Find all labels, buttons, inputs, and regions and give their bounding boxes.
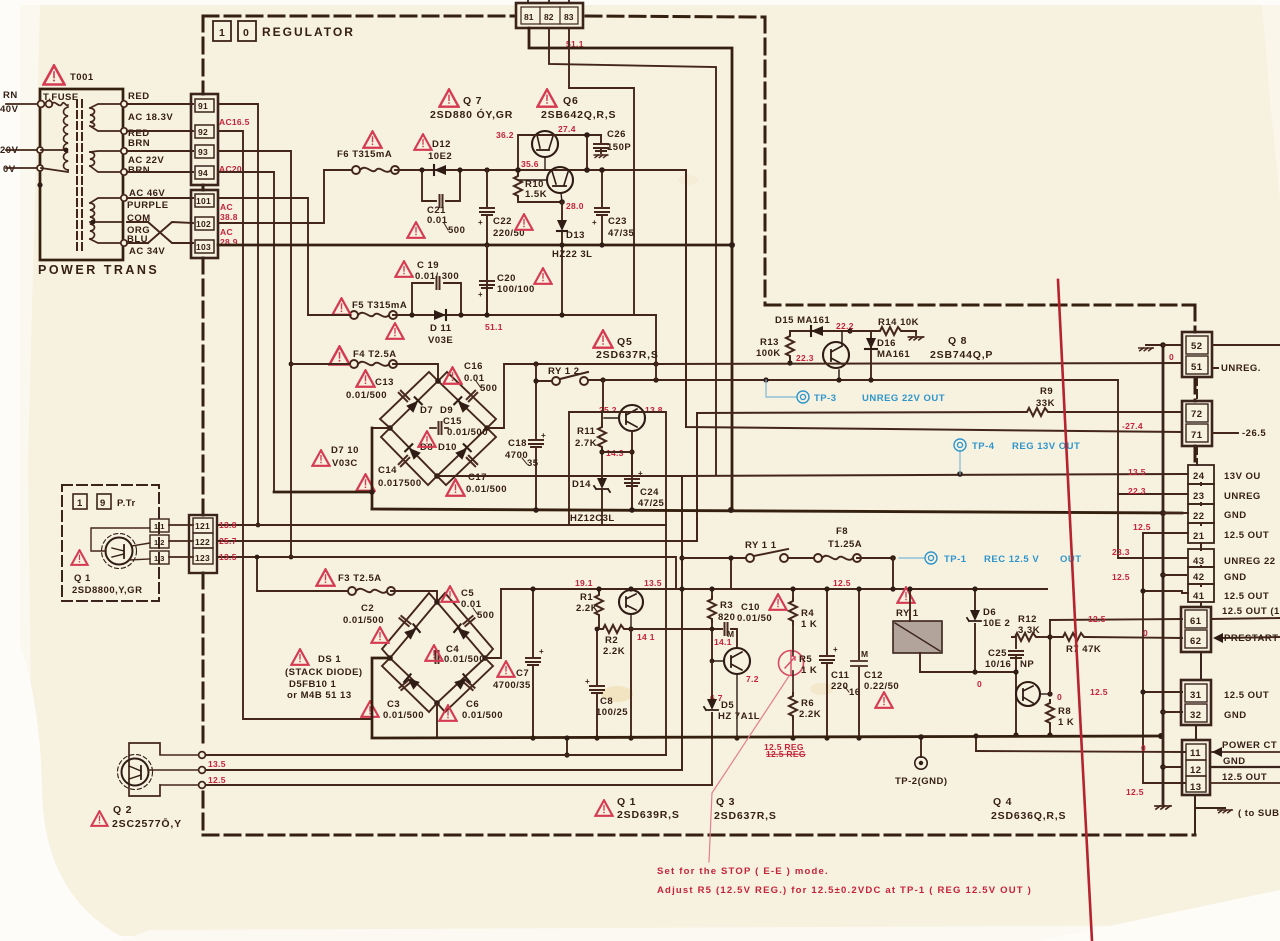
svg-text:C8: C8: [600, 696, 613, 707]
diode D12: [434, 165, 446, 175]
svg-text:12.5: 12.5: [1090, 687, 1108, 697]
svg-text:13: 13: [1190, 782, 1202, 793]
svg-text:0.01/ 300: 0.01/ 300: [415, 271, 459, 282]
diode D10: [455, 444, 471, 460]
wire 12.5 OUT line y=533 to pin 21: [1143, 532, 1182, 534]
svg-text:43: 43: [1193, 556, 1205, 567]
svg-text:52: 52: [1191, 341, 1203, 352]
relay contact RY12: [536, 380, 1118, 494]
connector 121-123: [189, 515, 217, 573]
svg-text:2SD880 ÓY,GR: 2SD880 ÓY,GR: [430, 108, 513, 121]
svg-text:12.5: 12.5: [1133, 522, 1151, 532]
svg-text:150P: 150P: [607, 142, 631, 153]
svg-text:RY 1 2: RY 1 2: [548, 366, 580, 377]
wire bridge1 left to bold L: [372, 427, 390, 429]
svg-text:R1: R1: [580, 592, 593, 603]
svg-text:PURPLE: PURPLE: [127, 200, 169, 211]
fuse F3: [348, 587, 395, 595]
svg-text:0.01/500: 0.01/500: [346, 390, 387, 401]
svg-text:123: 123: [195, 553, 210, 563]
connector 91-94: [191, 94, 218, 185]
svg-text:C7: C7: [516, 668, 529, 679]
svg-text:12.5 OUT (1: 12.5 OUT (1: [1222, 606, 1280, 617]
svg-text:UNREG 22V OUT: UNREG 22V OUT: [862, 393, 945, 404]
svg-text:27.4: 27.4: [558, 124, 576, 134]
wire 123 line y=557: [218, 557, 676, 589]
svg-text:2.2K: 2.2K: [576, 603, 598, 614]
wire UNREG22 y=558 to pin 43: [1118, 494, 1182, 558]
svg-text:11: 11: [1190, 748, 1201, 759]
svg-text:0: 0: [1141, 743, 1146, 753]
svg-text:BRN: BRN: [128, 138, 150, 149]
connector 11/12/13: [1182, 740, 1210, 795]
test point TP-1: [899, 557, 924, 559]
svg-text:+: +: [478, 290, 483, 299]
wire bridge2 right to 12.5 rail: [485, 589, 501, 658]
capacitor C15 center: [439, 422, 442, 434]
bridge rectifier 1 (D7 D8 D9 D10): [380, 372, 496, 485]
wire REG13V long line y=475 to pin 24: [437, 474, 1182, 770]
wire 121 line y=525: [218, 525, 666, 755]
svg-text:12.5 OUT: 12.5 OUT: [1224, 690, 1269, 701]
svg-text:R14 10K: R14 10K: [878, 317, 919, 328]
svg-text:0.01/500: 0.01/500: [447, 427, 488, 438]
transistor Q3: [712, 648, 750, 738]
svg-text:D14: D14: [572, 479, 591, 490]
svg-text:83: 83: [564, 12, 574, 22]
diode D5 zener: [711, 661, 713, 785]
wire D12 rail to pin 71 y=433: [686, 170, 1182, 432]
diode D8: [405, 444, 421, 460]
svg-text:0.017500: 0.017500: [378, 478, 422, 489]
svg-text:0: 0: [243, 27, 250, 39]
diode D14 zener: [594, 478, 610, 492]
diode D15: [790, 330, 850, 332]
svg-text:C18: C18: [508, 438, 527, 449]
svg-text:GND: GND: [1223, 756, 1246, 767]
diode in bridge2 lower-right: [454, 674, 470, 689]
svg-text:2SD636Q,R,S: 2SD636Q,R,S: [991, 810, 1066, 822]
ground at GND bus bottom: [1155, 806, 1171, 809]
svg-text:RN: RN: [3, 90, 18, 101]
D7-D10 part label: [312, 450, 329, 466]
svg-text:82: 82: [544, 12, 554, 22]
transistor Q5: [604, 405, 645, 431]
resistor R2: [599, 629, 712, 738]
capacitor C22: [486, 170, 488, 315]
diode in bridge2 lower-left: [404, 674, 420, 689]
svg-text:1 1: 1 1: [154, 522, 164, 531]
svg-text:12.5 REG: 12.5 REG: [766, 749, 806, 759]
wire B3 feed: [569, 28, 634, 315]
svg-text:REC 12.5 V: REC 12.5 V: [984, 554, 1039, 565]
svg-text:AC: AC: [220, 202, 233, 212]
svg-text:HZ22 3L: HZ22 3L: [552, 249, 592, 260]
svg-text:C3: C3: [387, 699, 400, 710]
wire 92 drop to F3: [218, 131, 372, 719]
svg-text:24: 24: [1193, 471, 1205, 482]
wire 61 line: [1050, 619, 1182, 620]
transistor Q8: [823, 331, 849, 380]
svg-text:13.5: 13.5: [208, 759, 226, 769]
svg-text:0.01/500: 0.01/500: [462, 710, 503, 721]
svg-text:RY 1 1: RY 1 1: [745, 540, 777, 551]
capacitor C18: [535, 364, 537, 509]
resistor R12: [1015, 637, 1017, 648]
svg-text:93: 93: [198, 147, 208, 157]
svg-text:V03C: V03C: [332, 458, 358, 469]
wire 103 main AC bus: [218, 244, 732, 247]
svg-text:121: 121: [195, 521, 210, 531]
wire Q5 emitter to bus: [631, 431, 633, 509]
svg-text:Q5: Q5: [617, 336, 633, 348]
capacitor C12: [858, 589, 860, 738]
svg-text:19.1: 19.1: [575, 578, 593, 588]
svg-text:R8: R8: [1058, 706, 1071, 717]
svg-text:220: 220: [831, 681, 848, 692]
svg-text:14.1: 14.1: [714, 637, 732, 647]
svg-text:2.2K: 2.2K: [603, 646, 625, 657]
capacitor C23: [601, 170, 603, 245]
svg-text:2.2K: 2.2K: [799, 709, 821, 720]
svg-text:HZ12C3L: HZ12C3L: [570, 513, 615, 524]
junction dots F6 row: [419, 167, 424, 172]
svg-text:R11: R11: [577, 426, 596, 437]
svg-text:13.8: 13.8: [219, 520, 237, 530]
svg-text:101: 101: [196, 196, 211, 206]
capacitor C6: [439, 705, 456, 721]
svg-text:22.3: 22.3: [1128, 486, 1146, 496]
transistor Q7: [532, 131, 558, 170]
svg-text:35: 35: [527, 458, 539, 469]
wire UNREG22 line to pin 51 y=372: [656, 363, 1182, 364]
svg-text:2SD8800,Y,GR: 2SD8800,Y,GR: [72, 585, 142, 596]
svg-text:D7 10: D7 10: [331, 445, 359, 456]
svg-text:40V: 40V: [0, 104, 19, 115]
svg-text:D9: D9: [440, 405, 453, 416]
svg-text:0.01/500: 0.01/500: [444, 654, 485, 665]
crossover X of ORG / BLU wires: [148, 222, 193, 243]
wire Q6 node down x=656: [655, 315, 657, 380]
svg-text:GND: GND: [1224, 510, 1247, 521]
P.Tr block border: [62, 485, 159, 601]
resistor R4: [792, 589, 794, 651]
svg-text:D10: D10: [438, 442, 457, 453]
wire below connector 13 to ground: [1195, 795, 1225, 835]
GND bus vertical x=1163 bold: [1162, 345, 1165, 806]
svg-text:C17: C17: [468, 472, 487, 483]
transistor Q4: [1016, 682, 1050, 706]
relay coil RY1: [893, 621, 942, 653]
svg-text:D13: D13: [566, 230, 585, 241]
wire R10/Q6 emitter node y=202: [518, 199, 562, 202]
svg-text:POWER TRANS: POWER TRANS: [38, 263, 159, 277]
svg-text:C14: C14: [378, 465, 397, 476]
svg-text:2SD637R,S: 2SD637R,S: [596, 349, 659, 361]
svg-text:C2: C2: [361, 603, 374, 614]
resistor R7 on 62 line: [1050, 637, 1182, 638]
svg-text:+: +: [833, 645, 838, 654]
wire UNREG line x=1118 down: [1118, 493, 1182, 495]
svg-text:-27.4: -27.4: [1122, 421, 1143, 431]
svg-text:122: 122: [195, 537, 210, 547]
svg-text:+: +: [585, 677, 590, 686]
svg-text:38.8: 38.8: [220, 212, 238, 222]
svg-text:C12: C12: [864, 670, 883, 681]
svg-text:13V OU: 13V OU: [1224, 471, 1261, 482]
connector 101-103: [191, 190, 218, 258]
svg-text:C20: C20: [497, 273, 516, 284]
diode D9: [454, 397, 470, 413]
connector 52/51: [1182, 332, 1212, 377]
svg-text:R12: R12: [1018, 614, 1037, 625]
svg-text:14.3: 14.3: [606, 448, 624, 458]
svg-text:36.2: 36.2: [496, 130, 514, 140]
svg-text:32: 32: [1190, 710, 1202, 721]
svg-text:21: 21: [1193, 531, 1205, 542]
svg-text:D 11: D 11: [430, 323, 452, 334]
capacitor C20: [486, 245, 488, 315]
bridge2 edge capacitors: [399, 616, 410, 626]
wire -26.5 rail y=410 to pin 72: [697, 412, 1182, 541]
svg-text:41: 41: [1193, 591, 1205, 602]
test point TP-3: [766, 380, 797, 397]
capacitor C13: [356, 370, 374, 386]
transformer primary winding: [64, 107, 69, 170]
svg-text:100K: 100K: [756, 348, 781, 359]
svg-text:28.0: 28.0: [566, 201, 584, 211]
capacitor C21 loop: [422, 170, 460, 201]
svg-text:0.01/500: 0.01/500: [466, 484, 507, 495]
svg-text:P.Tr: P.Tr: [117, 498, 136, 509]
svg-text:91: 91: [198, 101, 208, 111]
svg-text:R6: R6: [801, 698, 814, 709]
svg-text:Q 7: Q 7: [463, 95, 482, 107]
connector 31/32: [1181, 680, 1211, 725]
svg-text:R5: R5: [799, 654, 812, 665]
svg-text:C13: C13: [375, 377, 394, 388]
transistor Q1b: [619, 589, 643, 629]
capacitor C11: [826, 589, 828, 738]
svg-text:1 2: 1 2: [154, 538, 164, 547]
svg-text:71: 71: [1191, 430, 1203, 441]
svg-text:0.01/500: 0.01/500: [383, 710, 424, 721]
svg-text:103: 103: [196, 242, 211, 252]
svg-text:10E2: 10E2: [428, 151, 452, 162]
svg-text:C23: C23: [608, 216, 627, 227]
svg-text:13.5: 13.5: [1128, 467, 1146, 477]
bridge1 edge capacitors: [399, 391, 410, 402]
svg-text:9: 9: [100, 498, 106, 509]
Q1 pin boxes 11 12 13: [150, 519, 169, 564]
svg-text:0.22/50: 0.22/50: [864, 681, 899, 692]
wire Q7 collector row y=135: [518, 135, 601, 170]
svg-text:0: 0: [1169, 352, 1174, 362]
svg-text:M: M: [861, 649, 868, 659]
svg-text:GND: GND: [1224, 710, 1247, 721]
capacitor C14: [356, 474, 374, 490]
main 12.5V rail y=589: [501, 588, 1047, 590]
ground at R14: [908, 337, 923, 340]
wire F6 row y=170: [324, 169, 686, 171]
svg-text:C22: C22: [493, 216, 512, 227]
connector 61/62: [1181, 607, 1211, 652]
svg-text:Q 3: Q 3: [716, 796, 735, 808]
svg-text:47/35: 47/35: [608, 228, 634, 239]
svg-text:61: 61: [1190, 616, 1202, 627]
pink leader line from R5: [709, 676, 789, 862]
transistor Q2: [129, 743, 160, 796]
regulator block dashed border: [203, 16, 1195, 835]
svg-text:R13: R13: [760, 337, 779, 348]
svg-text:47/25: 47/25: [638, 498, 664, 509]
wire 94 drop: [218, 172, 274, 492]
secondary winding C: [90, 203, 95, 239]
svg-text:0.01/500: 0.01/500: [343, 615, 384, 626]
svg-text:0: 0: [977, 679, 982, 689]
svg-text:D7: D7: [420, 405, 433, 416]
bridge1 junction dots: [435, 378, 441, 384]
capacitor C26: [600, 135, 602, 153]
svg-text:22.3: 22.3: [796, 353, 814, 363]
capacitor C10: [712, 629, 737, 648]
transistor Q1: [102, 534, 137, 569]
capacitor C8: [596, 629, 598, 738]
main bus GND y=510: [372, 509, 1182, 513]
svg-text:Set for the STOP ( E-E ) m: Set for the STOP ( E-E ) mode.: [657, 866, 829, 877]
svg-text:23: 23: [1193, 491, 1205, 502]
svg-text:+: +: [478, 218, 483, 227]
diode in bridge2 upper-right: [454, 624, 470, 639]
svg-text:4700: 4700: [505, 450, 528, 461]
svg-text:F3 T2.5A: F3 T2.5A: [338, 573, 382, 584]
svg-text:+: +: [541, 431, 546, 440]
DS1 stack diode label: [291, 649, 308, 665]
svg-text:R3: R3: [720, 600, 733, 611]
svg-text:2SC2577Ō,Y: 2SC2577Ō,Y: [112, 818, 182, 830]
svg-text:500: 500: [448, 225, 465, 236]
red scan line: [1058, 280, 1092, 941]
wire B2 feed: [549, 28, 716, 475]
wire bridge1 right to RY12 node: [487, 364, 656, 428]
svg-text:1: 1: [77, 498, 83, 509]
svg-text:HZ 7A1L: HZ 7A1L: [718, 711, 760, 722]
capacitor C16: [443, 367, 461, 383]
svg-text:F5 T315mA: F5 T315mA: [352, 300, 407, 311]
svg-text:12.5: 12.5: [208, 775, 226, 785]
svg-text:92: 92: [198, 127, 208, 137]
svg-text:94: 94: [198, 168, 208, 178]
transformer core: [77, 100, 82, 250]
svg-text:12.5 OUT: 12.5 OUT: [1222, 772, 1267, 783]
resistor R10: [514, 173, 522, 199]
wire 101 drop to F5: [218, 198, 308, 315]
svg-text:+: +: [539, 647, 544, 656]
svg-text:35.6: 35.6: [521, 159, 539, 169]
diode D16: [870, 331, 872, 380]
svg-text:F8: F8: [836, 526, 848, 537]
svg-text:0: 0: [1057, 692, 1062, 702]
svg-text:2SB642Q,R,S: 2SB642Q,R,S: [541, 109, 616, 121]
svg-text:AC 18.3V: AC 18.3V: [128, 112, 173, 123]
svg-text:MA161: MA161: [877, 349, 910, 360]
resistor R9: [1024, 408, 1051, 416]
svg-text:C15: C15: [443, 416, 462, 427]
svg-text:0.01/50: 0.01/50: [737, 613, 772, 624]
svg-text:GND: GND: [1224, 572, 1247, 583]
relay contact RY11: [682, 557, 814, 559]
svg-text:1 K: 1 K: [801, 619, 817, 630]
wires transformer to connector 91-94: [127, 104, 193, 243]
svg-text:7.2: 7.2: [746, 674, 759, 684]
wires GND pins to bus: [1163, 345, 1186, 767]
svg-text:23.3: 23.3: [1112, 547, 1130, 557]
svg-text:Q 1: Q 1: [617, 796, 636, 808]
svg-text:T1.25A: T1.25A: [828, 539, 862, 550]
capacitor C24: [631, 452, 633, 509]
svg-text:500: 500: [480, 383, 497, 394]
svg-text:REGULATOR: REGULATOR: [262, 25, 355, 39]
svg-text:100/25: 100/25: [596, 707, 628, 718]
diode D13: [561, 202, 563, 315]
svg-text:C25: C25: [988, 648, 1007, 659]
svg-text:C 19: C 19: [417, 260, 439, 271]
wire bridge2 left to bus bold: [372, 658, 390, 737]
warning triangle T001: [44, 66, 65, 85]
svg-text:13.5: 13.5: [219, 552, 237, 562]
labels Q1 Q3 Q4 bottom: [595, 800, 612, 816]
potentiometer R5 (red): [779, 651, 804, 676]
svg-text:2SB744Q,P: 2SB744Q,P: [930, 349, 993, 361]
wire B1 bold feed: [529, 28, 732, 509]
svg-text:D15 MA161: D15 MA161: [775, 315, 830, 326]
svg-text:TP-3: TP-3: [814, 393, 837, 404]
fuse F5: [350, 311, 397, 319]
svg-text:500: 500: [477, 610, 494, 621]
connector 24/23/22/21: [1188, 465, 1214, 543]
svg-text:13.5: 13.5: [644, 578, 662, 588]
svg-text:+: +: [592, 218, 597, 227]
svg-text:2SD637R,S: 2SD637R,S: [714, 810, 777, 822]
svg-text:D16: D16: [877, 338, 896, 349]
secondary winding A: [90, 108, 95, 126]
svg-text:TP-1: TP-1: [944, 554, 967, 565]
svg-text:1: 1: [219, 27, 226, 39]
svg-text:10E 2: 10E 2: [983, 618, 1010, 629]
svg-text:22: 22: [1193, 511, 1205, 522]
capacitor C25: [1009, 651, 1023, 658]
svg-text:or M4B 51 13: or M4B 51 13: [287, 690, 352, 701]
svg-text:12: 12: [1190, 765, 1202, 776]
wire F5 row y=315: [308, 314, 656, 316]
svg-text:UNREG.: UNREG.: [1221, 363, 1261, 374]
svg-text:C16: C16: [464, 361, 483, 372]
svg-text:-26.5: -26.5: [1242, 428, 1266, 439]
connector 72/71: [1182, 401, 1212, 446]
svg-text:PRESTART: PRESTART: [1224, 633, 1279, 644]
svg-text:2SD639R,S: 2SD639R,S: [617, 809, 680, 821]
ground near pin 52: [1139, 348, 1153, 351]
svg-text:C11: C11: [831, 670, 850, 681]
resistor R11: [601, 412, 603, 478]
capacitor C5: [441, 586, 458, 602]
svg-text:Q 1: Q 1: [74, 573, 91, 584]
svg-text:AC: AC: [220, 227, 233, 237]
svg-text:Adjust R5 (12.5V REG.) for: Adjust R5 (12.5V REG.) for 12.5±0.2VDC a…: [657, 885, 1032, 896]
svg-text:102: 102: [196, 219, 211, 229]
junction dots on AC bus y=245: [484, 242, 489, 247]
svg-text:12.5 OUT: 12.5 OUT: [1224, 591, 1269, 602]
